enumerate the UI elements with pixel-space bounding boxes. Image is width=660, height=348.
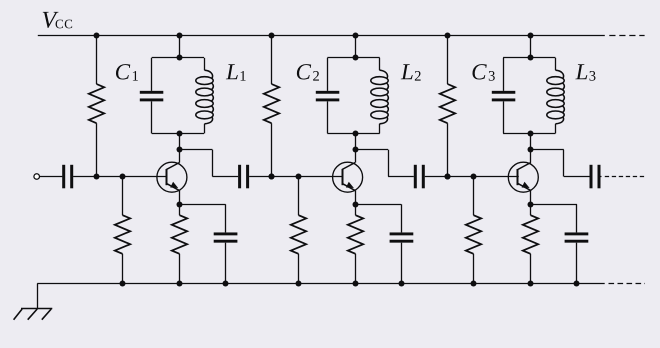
node emitter Q2 <box>353 202 359 208</box>
node tank 3 bottom <box>528 131 534 137</box>
wire collector out stage 1 <box>180 150 239 177</box>
wire tank 3 bottom side <box>503 133 555 135</box>
capacitor CE2 (emitter bypass, stage 2) <box>355 204 413 283</box>
capacitor C2 <box>316 58 340 134</box>
node ground junction RE3 <box>528 281 534 287</box>
node VCC junction tank 1 <box>177 33 183 39</box>
capacitor CE3 (emitter bypass, stage 3) <box>531 204 588 283</box>
node ground junction R2 <box>120 281 126 287</box>
label L2 <box>401 64 413 79</box>
resistor R3 (upper bias, stage 2) <box>264 36 279 177</box>
wire coupling cap to stage 3 base <box>425 176 448 178</box>
label L3 <box>575 64 587 79</box>
node emitter Q1 <box>177 202 183 208</box>
node emitter Q3 <box>528 202 534 208</box>
ground <box>14 284 53 320</box>
wire tank 2 top side <box>327 57 379 59</box>
node ground junction RE1 <box>177 281 183 287</box>
node VCC junction tank 3 <box>528 33 534 39</box>
resistor RE1 (emitter, stage 1) <box>172 204 187 283</box>
node base junction R1 <box>94 174 100 180</box>
wire collector out stage 2 <box>355 150 414 177</box>
node VCC junction for R5 <box>445 33 451 39</box>
wire base line stage 1 <box>96 176 167 178</box>
resistor RE3 (emitter, stage 3) <box>523 204 538 283</box>
net label VCC <box>43 12 59 28</box>
capacitor Cin (input coupling) <box>62 165 65 189</box>
node tank 3 top <box>528 55 534 61</box>
wire collector out stage 3 <box>531 150 590 177</box>
resistor R2 (lower bias, stage 1) <box>115 177 130 284</box>
resistor R5 (upper bias, stage 3) <box>440 36 455 177</box>
wire VCC rail <box>38 35 605 37</box>
node ground junction CE1 <box>223 281 229 287</box>
node ground junction CE2 <box>399 281 405 287</box>
wire ground rail dashed continuation <box>609 283 646 285</box>
resistor R6 (lower bias, stage 3) <box>466 177 481 284</box>
wire VCC to tank 1 <box>179 36 181 58</box>
node VCC junction for R3 <box>269 33 275 39</box>
node base junction R4 <box>296 174 302 180</box>
wire base line stage 3 <box>448 176 519 178</box>
node tank 1 bottom <box>177 131 183 137</box>
node junction coupling/bias stage 2 <box>269 174 275 180</box>
wire tank 1 to collector <box>179 133 181 149</box>
node collector Q3 <box>528 147 534 153</box>
wire Cin to base node <box>73 176 96 178</box>
inductor L2 <box>371 58 389 134</box>
wire VCC to tank 3 <box>530 36 532 58</box>
transistor Q1 <box>157 150 187 205</box>
transistor Q3 <box>508 150 538 205</box>
label L1 <box>226 64 238 79</box>
capacitor Cout (output coupling) <box>590 165 593 189</box>
node collector Q1 <box>177 147 183 153</box>
wire ground rail <box>37 283 605 285</box>
node VCC junction tank 2 <box>353 33 359 39</box>
resistor R4 (lower bias, stage 2) <box>291 177 306 284</box>
wire tank 3 to collector <box>530 133 532 149</box>
wire VCC rail dashed continuation <box>609 35 644 37</box>
wire tank 2 bottom side <box>327 133 379 135</box>
capacitor Cc23 (coupling stage 2 to 3) <box>414 165 417 189</box>
node base junction R5 <box>445 174 451 180</box>
label C1 <box>116 64 130 79</box>
capacitor C3 <box>492 58 516 134</box>
transistor Q2 <box>333 150 363 205</box>
input terminal <box>34 174 40 180</box>
capacitor C1 <box>140 58 164 134</box>
wire tank 1 bottom side <box>152 133 204 135</box>
wire VCC to tank 2 <box>355 36 357 58</box>
node tank 2 top <box>353 55 359 61</box>
node base junction R3 <box>269 174 275 180</box>
node collector Q2 <box>353 147 359 153</box>
wire input to Cin <box>39 176 62 178</box>
wire output dashed <box>601 176 602 178</box>
node tank 1 top <box>177 55 183 61</box>
wire base line stage 2 <box>272 176 343 178</box>
capacitor CE1 (emitter bypass, stage 1) <box>180 204 238 283</box>
label C2 <box>297 64 311 79</box>
node ground junction RE2 <box>353 281 359 287</box>
resistor RE2 (emitter, stage 2) <box>348 204 363 283</box>
capacitor Cc12 (coupling stage 1 to 2) <box>238 165 241 189</box>
node ground junction R4 <box>296 281 302 287</box>
wire tank 2 to collector <box>355 133 357 149</box>
label C3 <box>472 64 486 79</box>
inductor L3 <box>547 58 565 134</box>
wire tank 1 top side <box>152 57 204 59</box>
node VCC junction for R1 <box>94 33 100 39</box>
node ground junction CE3 <box>574 281 580 287</box>
node base junction R2 <box>120 174 126 180</box>
node base junction R6 <box>471 174 477 180</box>
node tank 2 bottom <box>353 131 359 137</box>
node junction coupling/bias stage 3 <box>445 174 451 180</box>
wire tank 3 top side <box>503 57 555 59</box>
wire coupling cap to stage 2 base <box>249 176 272 178</box>
inductor L1 <box>196 58 214 134</box>
resistor R1 (upper bias, stage 1) <box>89 36 104 177</box>
node ground junction R6 <box>471 281 477 287</box>
